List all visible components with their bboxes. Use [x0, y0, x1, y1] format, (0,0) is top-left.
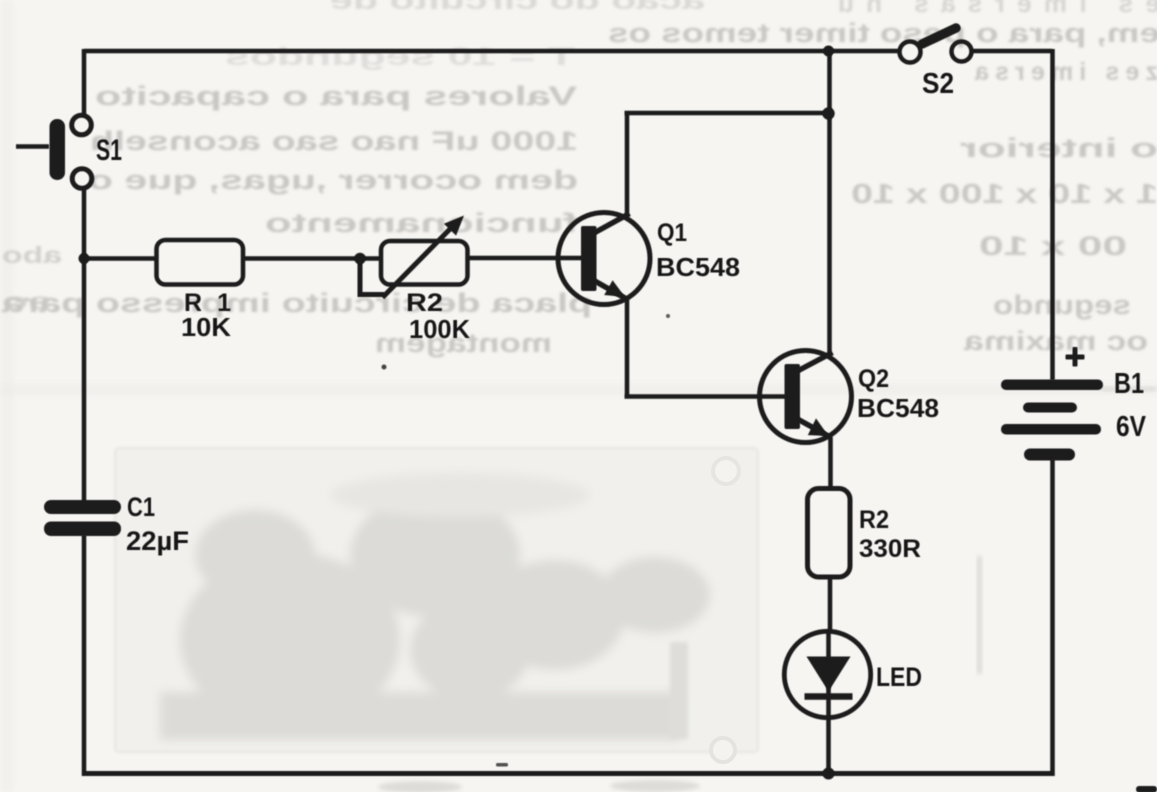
svg-text:o interior: o interior [959, 133, 1157, 163]
svg-text:S1: S1 [96, 134, 122, 167]
svg-text:T = 10 segundos: T = 10 segundos [225, 43, 575, 71]
svg-text:acao do circuito de: acao do circuito de [330, 0, 705, 15]
svg-text:6V: 6V [1116, 411, 1147, 443]
svg-text:em, para o peso timer temos os: em, para o peso timer temos os [608, 18, 1157, 48]
svg-text:1 x 10 x 100 x 10: 1 x 10 x 100 x 10 [851, 178, 1157, 209]
svg-text:1000 uF nao sao aconselh: 1000 uF nao sao aconselh [90, 126, 578, 156]
svg-text:Valores para o capacito: Valores para o capacito [95, 81, 577, 111]
svg-text:oc maxima: oc maxima [963, 326, 1148, 356]
svg-text:Q1: Q1 [657, 219, 687, 247]
svg-text:100K: 100K [409, 314, 470, 344]
svg-text:BC548: BC548 [656, 252, 740, 282]
svg-text:10K: 10K [181, 312, 231, 342]
svg-text:dem ocorrer ,ugas, que o: dem ocorrer ,ugas, que o [88, 165, 578, 195]
svg-text:330R: 330R [859, 535, 921, 563]
svg-text:22µF: 22µF [126, 526, 189, 556]
svg-text:Q2: Q2 [858, 365, 889, 393]
svg-text:segundo: segundo [993, 290, 1131, 320]
svg-text:R2: R2 [859, 506, 889, 534]
svg-text:LED: LED [876, 662, 922, 692]
svg-text:placa de circuito impresso par: placa de circuito impresso para [1, 288, 592, 318]
svg-text:B1: B1 [1114, 368, 1144, 400]
svg-text:abo: abo [2, 242, 62, 268]
svg-text:C1: C1 [127, 492, 155, 522]
svg-text:funcionamento: funcionamento [265, 208, 578, 238]
svg-text:R2: R2 [406, 289, 443, 317]
svg-text:so: so [2, 288, 52, 314]
svg-text:BC548: BC548 [857, 393, 939, 423]
svg-text:zes imersa: zes imersa [974, 58, 1157, 86]
svg-text:S2: S2 [922, 68, 954, 100]
